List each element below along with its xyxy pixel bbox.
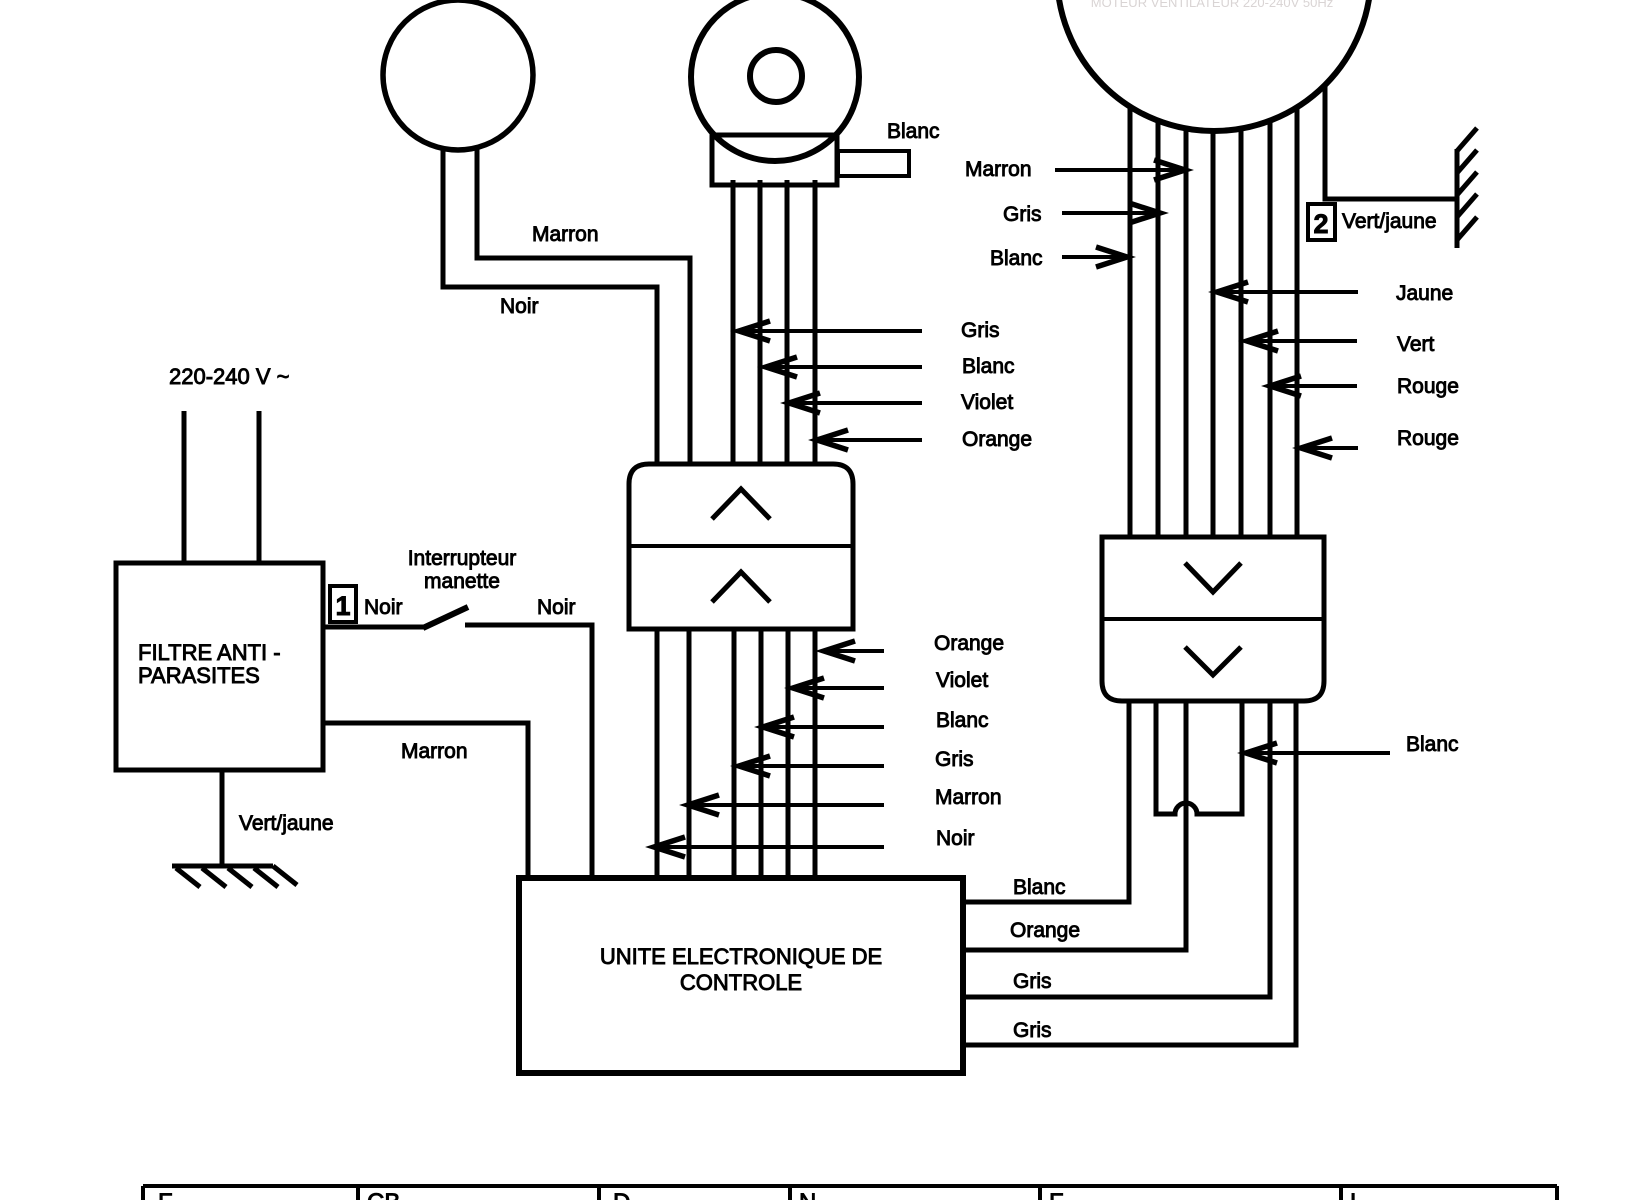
arrow Noir <box>652 837 884 857</box>
wire from filter to switch <box>323 625 425 630</box>
svg-text:Gris: Gris <box>961 319 1000 342</box>
table top border <box>143 1184 1557 1188</box>
svg-text:CB: CB <box>367 1189 400 1200</box>
wire Marron motor M2 to CN2 <box>1184 125 1189 540</box>
svg-text:Blanc: Blanc <box>1013 876 1066 899</box>
mains wire L <box>182 411 187 565</box>
svg-text:FILTRE ANTI -: FILTRE ANTI - <box>138 640 281 665</box>
svg-text:Marron: Marron <box>401 740 468 763</box>
wire Orange CN2 to control unit <box>961 698 1186 950</box>
mains wire N <box>257 411 262 565</box>
motor M1 outer circle <box>691 0 859 161</box>
svg-text:Blanc: Blanc <box>962 355 1015 378</box>
arrow Violet <box>791 678 884 698</box>
svg-text:Gris: Gris <box>935 748 974 771</box>
wire to earth <box>220 770 225 866</box>
arrow Rouge 2 <box>1299 438 1358 458</box>
wire Gris CN2 to control unit <box>961 698 1270 997</box>
wire Gris CN1 to control unit <box>732 625 737 880</box>
wire Marron from bulb to connector CN1 <box>477 148 690 470</box>
arrow Blanc <box>764 357 922 377</box>
arrow Marron <box>1055 160 1185 180</box>
connector CN2 chevron 2 <box>1185 647 1241 675</box>
svg-text:Rouge: Rouge <box>1397 375 1459 398</box>
arrow Blanc <box>1062 247 1127 267</box>
wire Noir from switch down to control unit <box>465 625 592 880</box>
bulb B1 (left circle) <box>383 0 533 150</box>
svg-text:Noir: Noir <box>936 827 975 850</box>
svg-text:Blanc: Blanc <box>990 247 1043 270</box>
svg-text:PARASITES: PARASITES <box>138 663 260 688</box>
arrow Violet <box>787 393 922 413</box>
svg-text:Blanc: Blanc <box>1406 733 1459 756</box>
svg-text:D: D <box>613 1189 630 1200</box>
svg-text:UNITE ELECTRONIQUE DE: UNITE ELECTRONIQUE DE <box>600 944 882 969</box>
earth wall symbol <box>1457 128 1477 248</box>
motor M1 inner circle <box>750 50 802 102</box>
svg-text:Blanc: Blanc <box>887 120 940 143</box>
label 1 (boxed) <box>330 586 356 622</box>
filter box <box>116 563 323 770</box>
arrow Vert <box>1245 331 1357 351</box>
svg-text:1: 1 <box>335 591 350 621</box>
connector CN2 chevron 1 <box>1185 563 1241 592</box>
svg-text:Vert/jaune: Vert/jaune <box>1342 210 1437 233</box>
earth symbol <box>172 866 297 887</box>
wire Gris motor M1 to CN1 <box>731 180 736 470</box>
svg-text:L: L <box>1350 1189 1363 1200</box>
wire Blanc CN1 to control unit <box>759 625 764 880</box>
connector CN1 chevron 1 <box>712 489 770 519</box>
arrow Gris <box>737 756 884 776</box>
wire Rouge 2 motor M2 to CN2 <box>1295 100 1300 540</box>
svg-text:N: N <box>799 1189 816 1200</box>
wire Violet motor M1 to CN1 <box>785 180 790 470</box>
svg-text:Interrupteur: Interrupteur <box>408 547 517 570</box>
wire Blanc CN2 to control unit <box>961 698 1129 902</box>
svg-text:Violet: Violet <box>961 391 1013 414</box>
wire Noir CN1 to control unit <box>655 625 660 880</box>
wire Gris 2 CN2 to control unit <box>961 698 1296 1045</box>
svg-text:Noir: Noir <box>500 295 539 318</box>
svg-text:F: F <box>158 1189 173 1200</box>
svg-text:MOTEUR VENTILATEUR 220-240V 50: MOTEUR VENTILATEUR 220-240V 50Hz <box>1091 0 1334 10</box>
motor M1 terminal tab Blanc <box>838 151 909 176</box>
svg-text:Noir: Noir <box>537 596 576 619</box>
table column separators <box>143 1186 1557 1200</box>
svg-text:Violet: Violet <box>936 669 988 692</box>
svg-text:Orange: Orange <box>962 428 1032 451</box>
svg-text:Marron: Marron <box>965 158 1032 181</box>
svg-text:Vert/jaune: Vert/jaune <box>239 812 334 835</box>
connector CN1 chevron 2 <box>712 572 770 602</box>
svg-text:Gris: Gris <box>1013 1019 1052 1042</box>
wire Orange motor M1 to CN1 <box>813 180 818 470</box>
wire Blanc motor M2 to CN2 <box>1128 100 1133 540</box>
switch blade <box>423 607 468 628</box>
svg-text:CONTROLE: CONTROLE <box>680 970 802 995</box>
motor M2 circle <box>1057 0 1371 131</box>
connector CN1 body <box>629 464 853 629</box>
arrow Blanc (plug) <box>1244 743 1390 763</box>
wire Violet CN1 to control unit <box>786 625 791 880</box>
motor M1 body <box>712 135 837 185</box>
plug P1 below CN2 with notch <box>1156 699 1242 814</box>
wire Gris motor M2 to CN2 <box>1156 115 1161 540</box>
svg-text:Gris: Gris <box>1013 970 1052 993</box>
wire Rouge motor M2 to CN2 <box>1268 115 1273 540</box>
svg-text:F: F <box>1049 1189 1064 1200</box>
connector CN1 divider <box>629 544 853 548</box>
arrow Orange <box>822 641 884 661</box>
svg-text:Marron: Marron <box>935 786 1002 809</box>
svg-text:Orange: Orange <box>1010 919 1080 942</box>
arrow Marron <box>686 795 884 815</box>
arrow Rouge <box>1268 376 1357 396</box>
wire Marron from filter to control unit <box>323 723 528 880</box>
arrow Gris <box>1062 203 1160 223</box>
connector CN2 body <box>1102 537 1324 701</box>
svg-text:Blanc: Blanc <box>936 709 989 732</box>
arrow Gris <box>737 321 922 341</box>
svg-text:220-240 V ~: 220-240 V ~ <box>169 364 289 389</box>
svg-text:Jaune: Jaune <box>1396 282 1453 305</box>
wire Noir from bulb to connector CN1 <box>443 148 657 470</box>
control unit box <box>519 878 963 1073</box>
wire Orange CN1 to control unit <box>813 625 818 880</box>
wire Vert/jaune to earth <box>1325 80 1457 199</box>
svg-text:Marron: Marron <box>532 223 599 246</box>
svg-text:Rouge: Rouge <box>1397 427 1459 450</box>
wire Blanc motor M1 to CN1 <box>758 180 763 470</box>
wire Jaune motor M2 to CN2 <box>1211 128 1216 540</box>
wire Vert motor M2 to CN2 <box>1239 125 1244 540</box>
wire Marron CN1 to control unit <box>687 625 692 880</box>
svg-text:manette: manette <box>424 570 500 593</box>
connector CN2 divider <box>1102 617 1324 621</box>
svg-text:Gris: Gris <box>1003 203 1042 226</box>
label 2 (boxed) <box>1308 204 1335 240</box>
arrow Orange <box>815 430 922 450</box>
svg-text:2: 2 <box>1313 209 1328 239</box>
arrow Blanc <box>761 717 884 737</box>
svg-text:Vert: Vert <box>1397 333 1435 356</box>
svg-text:Orange: Orange <box>934 632 1004 655</box>
svg-text:Noir: Noir <box>364 596 403 619</box>
arrow Jaune <box>1215 282 1358 302</box>
